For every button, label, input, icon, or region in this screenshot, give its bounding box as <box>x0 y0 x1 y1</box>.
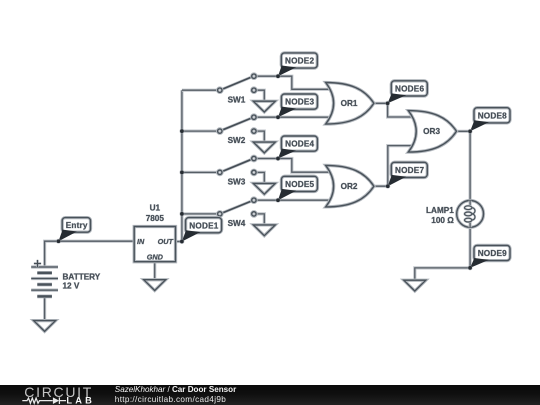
svg-text:NODE5: NODE5 <box>285 180 314 189</box>
switch SW4 (SPDT symbol) <box>218 198 257 216</box>
svg-text:LAMP1: LAMP1 <box>426 206 454 215</box>
svg-text:NODE2: NODE2 <box>285 57 314 66</box>
ground (SW2) <box>253 142 275 153</box>
node label NODE9 pointer <box>470 258 489 268</box>
junction dot at NODE2 <box>276 74 281 79</box>
wire battery positive to 7805 IN <box>45 241 135 267</box>
node label NODE1 <box>186 218 222 233</box>
CircuitLab logo diode symbol <box>53 397 59 404</box>
battery reference label BATTERY <box>63 272 101 281</box>
node label Entry pointer <box>59 230 78 242</box>
switch reference label SW4 <box>228 219 246 228</box>
svg-text:NODE7: NODE7 <box>395 166 424 175</box>
junction dot at NODE4 <box>276 156 281 161</box>
node label NODE4 <box>281 136 317 151</box>
node label NODE6 pointer <box>388 93 407 103</box>
svg-text:100 Ω: 100 Ω <box>431 216 454 225</box>
node label NODE6 <box>391 81 427 96</box>
battery positive terminal plus sign <box>34 260 41 267</box>
svg-text:12 V: 12 V <box>63 282 80 291</box>
node label NODE2 pointer <box>278 66 296 77</box>
ground (7805) <box>144 280 166 291</box>
node label NODE7 pointer <box>388 175 406 186</box>
node label NODE8 pointer <box>470 120 489 131</box>
junction dot at NODE6 <box>385 101 390 106</box>
svg-text:GND: GND <box>147 252 164 261</box>
lamp reference label LAMP1 <box>426 206 454 215</box>
svg-text:NODE8: NODE8 <box>478 111 507 120</box>
node label NODE3 pointer <box>278 107 296 118</box>
lamp LAMP1 (symbol: circle with filament coil) <box>457 201 484 228</box>
node label NODE7 <box>391 162 427 177</box>
svg-text:NODE6: NODE6 <box>395 85 424 94</box>
wire lamp to NODE9 junction <box>469 227 472 268</box>
switch SW1 (SPDT symbol) <box>218 74 257 92</box>
U1 pin label IN <box>137 237 145 246</box>
node label NODE9 <box>474 245 510 260</box>
battery BATTERY (cell plates) <box>31 267 58 296</box>
U1 value label 7805 <box>146 214 165 223</box>
junction dot at NODE9 <box>468 265 473 270</box>
ground (SW1) <box>253 101 275 112</box>
node label NODE5 pointer <box>278 189 296 200</box>
junction dot at NODE5 <box>276 198 281 203</box>
junction dot bus-SW3 <box>179 170 184 175</box>
wire OR2 output to OR3 bottom input <box>374 146 414 187</box>
svg-text:OUT: OUT <box>158 237 174 246</box>
node label NODE4 pointer <box>278 149 296 159</box>
ground (SW4) <box>253 225 275 236</box>
node label NODE2 <box>281 53 317 68</box>
node label NODE5 <box>281 176 317 191</box>
wire SW1 lower throw to ground <box>256 90 264 101</box>
node label Entry <box>62 218 90 233</box>
junction dot at NODE8 <box>468 129 473 134</box>
wire OR3 output to lamp <box>457 131 471 200</box>
svg-text:OR3: OR3 <box>423 127 440 136</box>
wire SW4 lower throw to ground <box>256 214 264 225</box>
wire bus to SW2 common <box>182 130 218 133</box>
junction dot at NODE3 <box>276 115 281 120</box>
svg-text:U1: U1 <box>150 204 161 213</box>
svg-text:OR1: OR1 <box>341 99 358 108</box>
svg-text:LAB: LAB <box>66 395 95 405</box>
wire NODE9 junction to ground <box>415 268 470 280</box>
svg-text:NODE3: NODE3 <box>285 98 314 107</box>
node label NODE8 <box>474 108 510 123</box>
node label NODE1 pointer <box>182 230 201 241</box>
wire SW3 lower throw to ground <box>256 172 264 183</box>
wire bus to SW3 common <box>182 171 218 174</box>
svg-text:NODE4: NODE4 <box>285 140 314 149</box>
junction dot at NODE7 <box>385 184 390 189</box>
U1 pin label GND <box>147 252 164 261</box>
svg-text:SW1: SW1 <box>228 95 246 104</box>
wire SW1 throw to OR1 top input <box>256 76 331 89</box>
ground (SW3) <box>253 183 275 194</box>
ground (lamp return) <box>404 280 426 291</box>
svg-text:7805: 7805 <box>146 214 165 223</box>
wire SW4 throw to OR2 bottom input <box>256 199 331 202</box>
switch SW3 (SPDT symbol) <box>218 156 257 174</box>
junction dot at NODE1 <box>179 239 184 244</box>
ground (battery) <box>34 321 56 332</box>
wire OR1 output to OR3 top input <box>374 103 414 117</box>
svg-text:BATTERY: BATTERY <box>63 272 101 281</box>
wire 7805 OUT to bus <box>176 240 182 243</box>
junction dot at Entry <box>56 239 61 244</box>
svg-text:Entry: Entry <box>66 221 88 230</box>
or-gate OR3 (symbol) <box>408 111 456 153</box>
wire SW3 throw to OR2 top input <box>256 159 331 173</box>
svg-text:SW3: SW3 <box>228 178 246 187</box>
wire SW2 lower throw to ground <box>256 131 264 142</box>
wire 7805 GND lead <box>153 262 156 280</box>
or-gate OR2 (symbol) <box>326 165 374 207</box>
voltage regulator U1 (body) <box>134 227 175 262</box>
footer bar <box>0 385 540 405</box>
or-gate OR1 (symbol) <box>326 83 374 125</box>
node label NODE3 <box>281 94 317 109</box>
svg-text:NODE9: NODE9 <box>478 249 507 258</box>
svg-text:http://circuitlab.com/cad4j9b: http://circuitlab.com/cad4j9b <box>115 395 226 404</box>
switch reference label SW3 <box>228 178 246 187</box>
wire bus to SW4 common <box>182 212 218 215</box>
U1 reference label <box>150 204 161 213</box>
lamp value label 100 ohm <box>431 216 454 225</box>
switch reference label SW1 <box>228 95 246 104</box>
svg-text:NODE1: NODE1 <box>189 221 218 230</box>
svg-text:OR2: OR2 <box>341 182 358 191</box>
gate reference label OR2 <box>341 182 358 191</box>
svg-text:IN: IN <box>137 237 145 246</box>
svg-text:SW4: SW4 <box>228 219 246 228</box>
battery value label 12 V <box>63 282 80 291</box>
wire battery negative lead <box>43 296 46 320</box>
gate reference label OR1 <box>341 99 358 108</box>
gate reference label OR3 <box>423 127 440 136</box>
U1 pin label OUT <box>158 237 174 246</box>
CircuitLab logo resistor squiggle <box>22 398 52 403</box>
junction dot bus-SW2 <box>179 129 184 134</box>
switch reference label SW2 <box>228 136 246 145</box>
wire bus to SW1 common <box>182 89 218 92</box>
wire switch common bus <box>180 90 183 241</box>
svg-text:SazelKhokhar / Car Door Sensor: SazelKhokhar / Car Door Sensor <box>115 385 237 394</box>
junction dot bus-SW4 <box>179 211 184 216</box>
wire SW2 throw to OR1 bottom input <box>256 116 331 119</box>
switch SW2 (SPDT symbol) <box>218 115 257 133</box>
svg-text:SW2: SW2 <box>228 136 246 145</box>
